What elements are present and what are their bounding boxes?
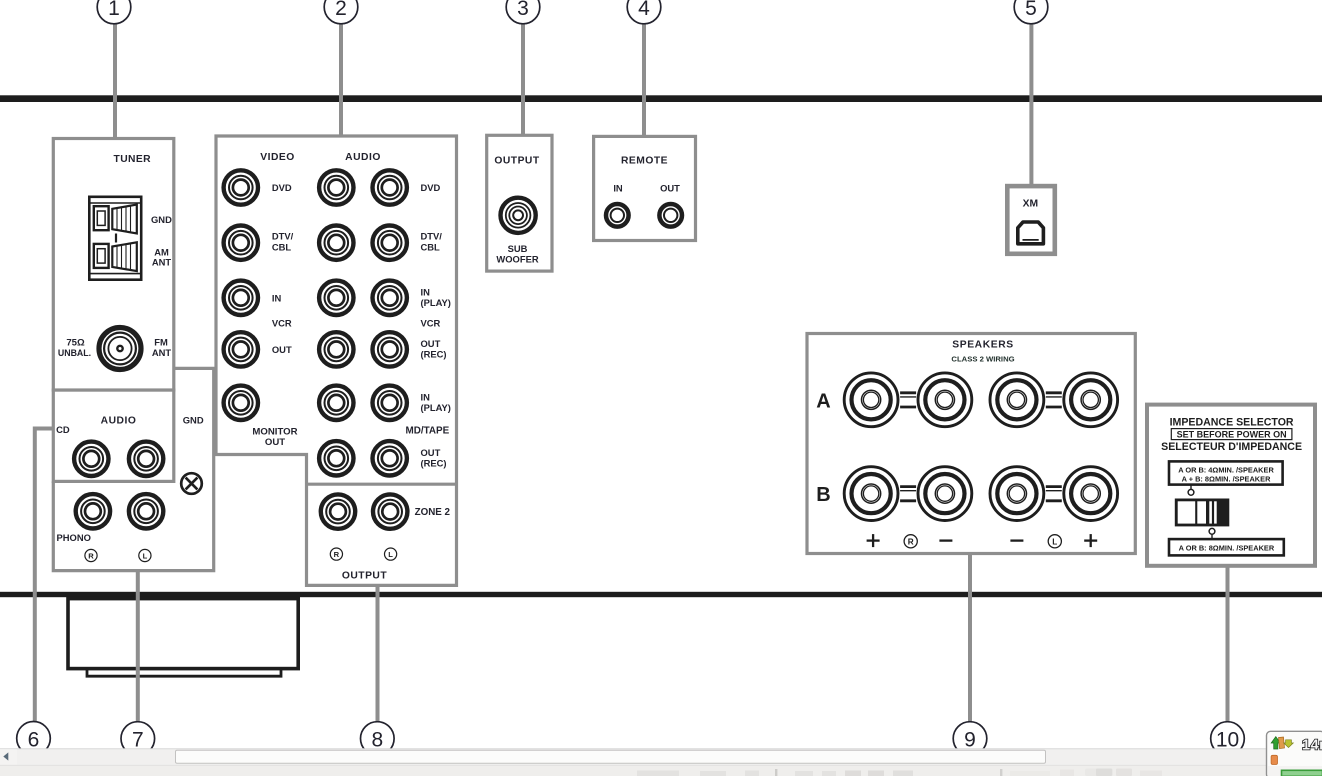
svg-text:IN: IN — [421, 287, 431, 298]
svg-text:1: 1 — [108, 0, 120, 20]
widget down arrow icon — [1284, 740, 1294, 748]
svg-text:(PLAY): (PLAY) — [421, 402, 451, 413]
RCA jack MD/TAPE IN R — [373, 386, 407, 420]
widget up arrow icon — [1271, 737, 1284, 749]
svg-text:(REC): (REC) — [421, 349, 447, 360]
svg-text:CLASS 2 WIRING: CLASS 2 WIRING — [951, 354, 1014, 363]
status strip faint marks — [637, 769, 1162, 776]
L symbol speakers — [1048, 535, 1061, 548]
SET BEFORE POWER ON box — [1171, 429, 1292, 440]
callout circle 7 — [121, 722, 155, 756]
speaker bar B right — [1046, 485, 1062, 502]
callout circle 4 — [627, 0, 661, 24]
phono gnd outer box — [53, 368, 213, 570]
callout line 4 — [642, 10, 646, 139]
svg-text:75Ω: 75Ω — [66, 338, 85, 349]
svg-text:VCR: VCR — [421, 318, 441, 329]
svg-text:VIDEO: VIDEO — [260, 152, 295, 163]
GND screw — [181, 473, 202, 494]
L symbol phono — [139, 549, 151, 561]
callout circle 8 — [361, 722, 395, 756]
svg-text:CBL: CBL — [272, 241, 292, 252]
svg-text:A: A — [816, 390, 830, 412]
svg-text:3: 3 — [517, 0, 529, 20]
RCA jack zone2 L — [373, 494, 407, 528]
svg-text:MONITOR: MONITOR — [252, 426, 297, 437]
binding post B3 — [990, 467, 1044, 521]
chassis bottom edge line — [0, 592, 1322, 597]
svg-text:IMPEDANCE SELECTOR: IMPEDANCE SELECTOR — [1170, 416, 1294, 428]
speakers box — [807, 334, 1135, 554]
svg-text:10: 10 — [1216, 729, 1239, 752]
connector upper — [1188, 485, 1194, 496]
minus symbol left — [939, 539, 952, 541]
video audio box outline — [216, 136, 457, 585]
svg-text:L: L — [143, 551, 148, 560]
RCA jack MD/TAPE IN L — [319, 386, 353, 420]
scrollbar left button — [0, 749, 17, 765]
RCA jack audio VCR OUT R — [373, 332, 407, 366]
chassis top edge line — [0, 95, 1322, 102]
audio cd box — [53, 390, 174, 481]
subwoofer output box — [487, 135, 552, 271]
svg-text:R: R — [908, 537, 914, 546]
RCA jack monitor out — [224, 386, 258, 420]
svg-text:4: 4 — [638, 0, 650, 20]
binding post A4 — [1064, 373, 1118, 427]
callout line 6 — [35, 429, 53, 739]
svg-text:GND: GND — [183, 415, 204, 426]
RCA jack video VCR IN — [224, 281, 258, 315]
svg-text:REMOTE: REMOTE — [621, 156, 668, 167]
RCA jack audio DVD R — [373, 170, 407, 204]
svg-text:OUT: OUT — [421, 447, 441, 458]
unit foot lip — [87, 669, 281, 677]
RCA jack MD/TAPE OUT R — [373, 441, 407, 475]
impedance switch — [1175, 499, 1230, 527]
svg-text:B: B — [816, 484, 830, 506]
svg-text:DVD: DVD — [421, 182, 441, 193]
remote box — [594, 136, 696, 240]
widget orange square — [1271, 755, 1277, 764]
RCA jack CD L — [129, 442, 163, 476]
svg-text:OUT: OUT — [660, 183, 680, 194]
RCA jack PHONO R — [76, 494, 110, 528]
RCA jack audio VCR OUT L — [319, 332, 353, 366]
svg-text:9: 9 — [964, 729, 976, 752]
zone2 divider line — [307, 483, 457, 486]
RCA jack zone2 R — [321, 494, 355, 528]
scrollbar thumb — [176, 750, 1046, 763]
callout line 10 — [1226, 566, 1230, 738]
callout line 3 — [521, 10, 525, 138]
svg-text:2: 2 — [335, 0, 347, 20]
svg-text:L: L — [1052, 537, 1057, 546]
svg-text:SPEAKERS: SPEAKERS — [952, 340, 1013, 351]
unit foot rectangle — [68, 599, 298, 669]
svg-text:IN: IN — [613, 183, 623, 194]
svg-text:FM: FM — [154, 337, 168, 348]
download overlay widget — [1267, 731, 1322, 776]
svg-text:A OR B: 4ΩMIN. /SPEAKER: A OR B: 4ΩMIN. /SPEAKER — [1178, 465, 1274, 474]
callout line 2 — [339, 10, 343, 137]
speaker bar A left — [900, 391, 916, 408]
R symbol speakers — [904, 535, 917, 548]
svg-text:XM: XM — [1023, 199, 1038, 210]
svg-text:A OR B: 8ΩMIN. /SPEAKER: A OR B: 8ΩMIN. /SPEAKER — [1179, 544, 1275, 553]
binding post A1 — [844, 373, 898, 427]
speaker bar A right — [1046, 391, 1062, 408]
svg-text:VCR: VCR — [272, 318, 292, 329]
callout circle 3 — [506, 0, 540, 24]
svg-text:(REC): (REC) — [421, 458, 447, 469]
svg-text:R: R — [88, 551, 94, 560]
AM antenna terminal block — [89, 197, 141, 280]
binding post B4 — [1064, 467, 1118, 521]
RCA jack audio DVD L — [319, 170, 353, 204]
svg-text:UNBAL.: UNBAL. — [58, 348, 91, 358]
svg-text:CBL: CBL — [421, 241, 441, 252]
binding post B2 — [918, 467, 972, 521]
svg-text:A + B: 8ΩMIN. /SPEAKER: A + B: 8ΩMIN. /SPEAKER — [1182, 475, 1271, 484]
connector lower — [1209, 528, 1215, 539]
XM box — [1007, 186, 1055, 254]
plus symbol right — [1084, 534, 1097, 547]
XM connector icon — [1018, 222, 1044, 244]
svg-text:8: 8 — [371, 729, 383, 752]
svg-text:7: 7 — [132, 729, 144, 752]
svg-text:L: L — [388, 550, 393, 559]
svg-text:DTV/: DTV/ — [272, 231, 294, 242]
impedance lower label box — [1169, 539, 1284, 555]
svg-text:ANT: ANT — [152, 257, 172, 268]
svg-text:SUB: SUB — [508, 243, 528, 254]
RCA jack video DTV/CBL — [224, 226, 258, 260]
svg-text:R: R — [334, 550, 340, 559]
callout circle 10 — [1211, 722, 1245, 756]
callout circle 6 — [17, 722, 51, 756]
svg-text:GND: GND — [151, 214, 172, 225]
svg-text:OUT: OUT — [272, 344, 292, 355]
svg-text:OUT: OUT — [265, 437, 285, 448]
callout line 9 — [968, 554, 972, 739]
RCA jack audio VCR IN R — [373, 281, 407, 315]
binding post A2 — [918, 373, 972, 427]
FM antenna jack — [99, 328, 141, 370]
svg-text:14n: 14n — [1302, 738, 1322, 754]
callout circle 2 — [324, 0, 358, 24]
impedance selector box — [1147, 405, 1315, 566]
subwoofer jack — [500, 198, 535, 233]
RCA jack PHONO L — [129, 494, 163, 528]
tuner box — [53, 139, 174, 391]
svg-text:SET BEFORE POWER ON: SET BEFORE POWER ON — [1177, 430, 1287, 440]
svg-text:ANT: ANT — [152, 347, 172, 358]
svg-text:DVD: DVD — [272, 182, 292, 193]
svg-text:(PLAY): (PLAY) — [421, 297, 451, 308]
RCA jack CD R — [74, 442, 108, 476]
svg-text:DTV/: DTV/ — [421, 231, 443, 242]
svg-text:TUNER: TUNER — [114, 154, 152, 165]
speaker bar B left — [900, 485, 916, 502]
binding post A3 — [990, 373, 1044, 427]
scrollbar track — [0, 749, 1322, 766]
svg-text:ZONE 2: ZONE 2 — [415, 507, 451, 518]
svg-text:IN: IN — [272, 292, 282, 303]
svg-text:CD: CD — [56, 424, 70, 435]
callout line 7 — [136, 572, 140, 738]
svg-text:IN: IN — [421, 392, 431, 403]
RCA jack MD/TAPE OUT L — [319, 441, 353, 475]
svg-text:AUDIO: AUDIO — [101, 416, 137, 427]
bottom status strip — [0, 765, 1322, 776]
svg-text:OUTPUT: OUTPUT — [494, 156, 540, 167]
RCA jack audio DTV L — [319, 226, 353, 260]
widget green progress bar — [1282, 770, 1322, 776]
impedance upper label box — [1169, 461, 1283, 484]
remote IN jack — [606, 204, 629, 227]
callout line 8 — [376, 585, 380, 738]
RCA jack video DVD — [224, 170, 258, 204]
svg-text:OUT: OUT — [421, 338, 441, 349]
svg-text:SELECTEUR D'IMPEDANCE: SELECTEUR D'IMPEDANCE — [1161, 441, 1302, 453]
callout line 5 — [1029, 10, 1033, 188]
remote OUT jack — [659, 204, 682, 227]
callout circle 1 — [97, 0, 131, 24]
RCA jack audio VCR IN L — [319, 281, 353, 315]
svg-text:AUDIO: AUDIO — [345, 152, 381, 163]
RCA jack audio DTV R — [373, 226, 407, 260]
minus symbol right — [1010, 539, 1023, 541]
callout circle 9 — [953, 722, 987, 756]
svg-text:WOOFER: WOOFER — [496, 253, 538, 264]
svg-text:PHONO: PHONO — [57, 532, 91, 543]
svg-text:6: 6 — [28, 728, 40, 751]
R symbol phono — [85, 549, 97, 561]
RCA jack video VCR OUT — [224, 332, 258, 366]
callout circle 5 — [1014, 0, 1048, 24]
L symbol zone2 — [385, 548, 397, 560]
svg-text:MD/TAPE: MD/TAPE — [406, 426, 450, 437]
svg-text:5: 5 — [1025, 0, 1037, 20]
plus symbol left — [867, 534, 880, 547]
R symbol zone2 — [330, 548, 342, 560]
svg-text:OUTPUT: OUTPUT — [342, 570, 388, 581]
callout line 1 — [113, 10, 117, 140]
binding post B1 — [844, 467, 898, 521]
